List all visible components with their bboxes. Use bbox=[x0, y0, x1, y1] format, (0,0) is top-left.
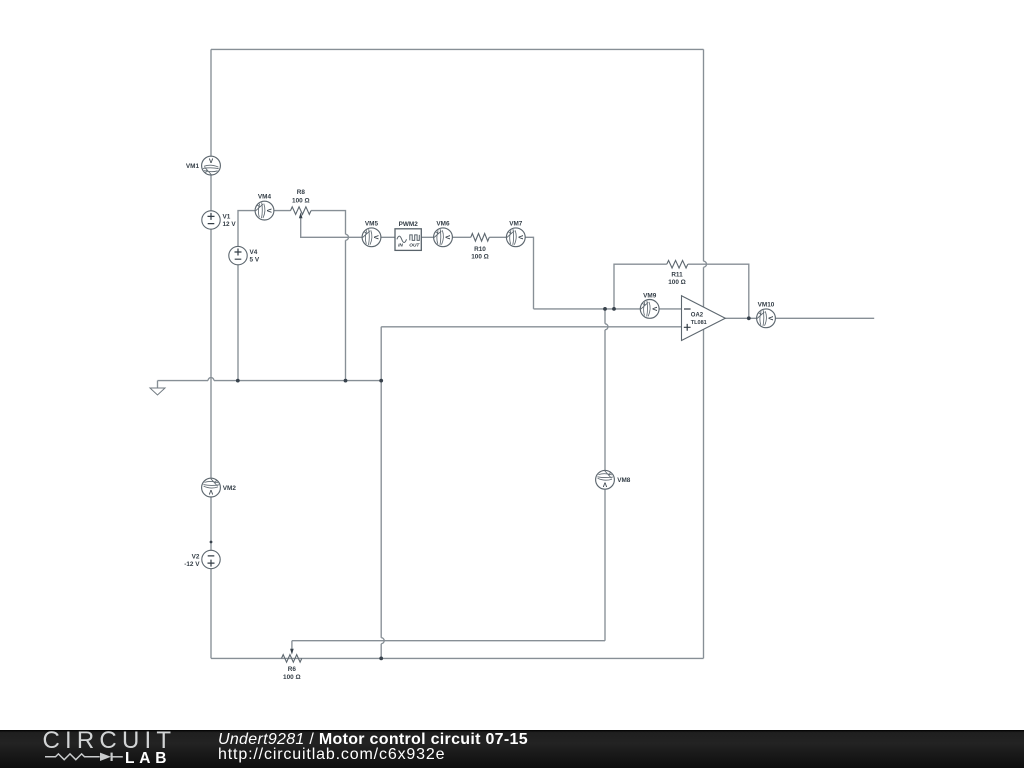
wire hop: R8 ground leg over wiper run bbox=[346, 234, 349, 240]
wire hop: right edge over R11 feedback wire bbox=[704, 261, 707, 267]
svg-text:R6: R6 bbox=[288, 666, 297, 673]
voltmeter VM8 bbox=[596, 470, 631, 489]
voltmeter VM6 bbox=[434, 220, 453, 246]
svg-text:V2: V2 bbox=[192, 553, 200, 560]
wire VM8 branch x=605 from inverting row down (hop over + row) bbox=[604, 309, 606, 641]
wire V4 top to VM4 bbox=[238, 211, 265, 247]
junction: R11 branch on inverting row bbox=[612, 307, 616, 311]
wire vertical x=381 corner down to bottom edge bbox=[380, 327, 382, 659]
wire hop: ground bus over left rail bbox=[208, 378, 214, 381]
wire outer rectangle right edge (with hop at R11 crossing) bbox=[703, 49, 705, 658]
svg-text:12 V: 12 V bbox=[223, 221, 237, 228]
wire V4 bottom to ground bus bbox=[237, 265, 239, 381]
CircuitLab logo bbox=[0, 730, 200, 768]
svg-text:PWM2: PWM2 bbox=[399, 221, 419, 228]
resistor R8 100 Ohm (potentiometer) bbox=[291, 207, 312, 215]
wire outer rectangle left rail bbox=[210, 49, 212, 658]
svg-text:OA2: OA2 bbox=[691, 313, 704, 319]
wire inverting input row to VM9 and op-amp bbox=[534, 308, 682, 310]
wire styles bbox=[158, 49, 875, 658]
svg-text:LAB: LAB bbox=[125, 750, 171, 767]
wire outer rectangle top edge bbox=[211, 48, 704, 50]
voltage source V4 5V bbox=[229, 246, 260, 264]
svg-text:VM7: VM7 bbox=[509, 220, 523, 227]
wire VM5 to PWM2 bbox=[372, 236, 396, 238]
svg-text:100 Ω: 100 Ω bbox=[283, 674, 301, 681]
voltmeter VM10 bbox=[757, 302, 776, 328]
voltage source V1 12V bbox=[202, 211, 237, 229]
wire R6 wiper stem bbox=[291, 641, 293, 650]
wire bottom wiper run from VM8 branch to R6 wiper bbox=[292, 640, 605, 642]
junction: R8 ground leg on ground bus bbox=[344, 379, 348, 383]
svg-text:V1: V1 bbox=[223, 213, 231, 220]
svg-text:VM1: VM1 bbox=[186, 163, 200, 170]
voltmeter VM1 bbox=[186, 156, 221, 175]
svg-text:R8: R8 bbox=[297, 189, 306, 196]
PWM2 block bbox=[395, 221, 421, 250]
svg-text:V4: V4 bbox=[250, 249, 258, 256]
svg-text:VM10: VM10 bbox=[758, 302, 775, 309]
resistor R10 100 Ohm bbox=[471, 234, 489, 242]
wire hop: x=381 leg over bottom wiper run bbox=[381, 638, 384, 644]
voltmeter VM2 bbox=[202, 478, 237, 497]
wire R8 wiper stem and run to VM5 bbox=[301, 217, 372, 238]
wire ground bus (hop over left rail) bbox=[158, 380, 382, 382]
voltmeter VM5 bbox=[362, 220, 381, 246]
wire VM7 right then down to inverting row bbox=[516, 237, 534, 309]
svg-text:OUT: OUT bbox=[409, 243, 420, 249]
svg-text:VM4: VM4 bbox=[258, 194, 272, 201]
wire R10 to VM7 bbox=[489, 236, 516, 238]
junction: x=381 leg on bottom edge bbox=[379, 657, 383, 661]
svg-text:5 V: 5 V bbox=[250, 256, 260, 263]
wire op-amp output to VM10 and out bbox=[725, 317, 874, 319]
voltage source V2 -12V bbox=[184, 550, 220, 568]
svg-text:VM8: VM8 bbox=[617, 477, 631, 484]
svg-text:-12 V: -12 V bbox=[184, 561, 200, 568]
svg-text:100 Ω: 100 Ω bbox=[471, 253, 489, 260]
wire VM4 to R8 bbox=[265, 210, 291, 212]
svg-text:VM6: VM6 bbox=[436, 220, 450, 227]
voltmeter VM7 bbox=[506, 220, 525, 246]
wire R8 right lead, down to ground bus (hop over wiper wire) bbox=[311, 211, 346, 381]
svg-text:TL081: TL081 bbox=[691, 320, 707, 326]
svg-text:VM5: VM5 bbox=[365, 220, 379, 227]
op-amp OA2 TL081 bbox=[682, 296, 726, 341]
resistor R6 100 Ohm (potentiometer) bbox=[282, 655, 302, 663]
svg-text:VM9: VM9 bbox=[643, 292, 657, 299]
footer bar bbox=[0, 730, 1024, 768]
junction: VM8 branch on inverting row bbox=[603, 307, 607, 311]
svg-text:IN: IN bbox=[398, 243, 403, 249]
resistor R11 100 Ohm bbox=[667, 260, 688, 268]
wire outer rectangle bottom edge bbox=[211, 657, 704, 659]
wire VM6 to R10 bbox=[443, 236, 471, 238]
svg-text:100 Ω: 100 Ω bbox=[292, 198, 310, 205]
node dot above V2 bbox=[210, 541, 213, 544]
wire hop: VM8 branch over noninverting row bbox=[605, 324, 608, 330]
wire noninverting input row (from x=381 corner to op-amp) bbox=[381, 326, 681, 328]
svg-text:100 Ω: 100 Ω bbox=[668, 279, 686, 286]
voltmeter VM4 bbox=[255, 194, 274, 220]
svg-text:R11: R11 bbox=[671, 272, 683, 279]
ground bbox=[150, 388, 165, 395]
wire R11 branch: up from inverting row, across (hop at right edge), down to output bbox=[614, 264, 749, 318]
voltmeter VM9 bbox=[640, 292, 659, 318]
wire PWM2 to VM6 bbox=[421, 236, 443, 238]
junction: ground bus at x=381 leg bbox=[379, 379, 383, 383]
wire ground stub bbox=[157, 381, 159, 388]
junction: feedback tap on output wire bbox=[747, 316, 751, 320]
junction: V4 leg on ground bus bbox=[236, 379, 240, 383]
svg-text:VM2: VM2 bbox=[223, 485, 237, 492]
svg-text:R10: R10 bbox=[474, 246, 486, 253]
